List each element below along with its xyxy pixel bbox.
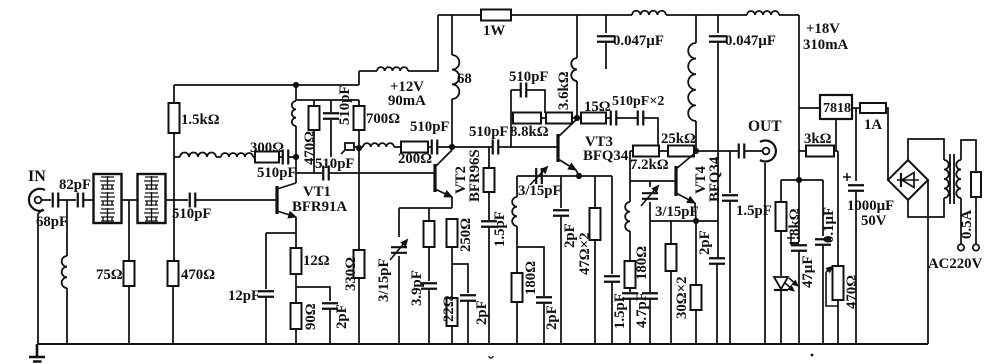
wire 75ohm to ground — [128, 286, 130, 344]
0.047µF value label (second) — [725, 33, 776, 49]
wire 470 bias to base line — [313, 130, 315, 173]
transistor VT1 BFR91A — [277, 183, 296, 218]
wire fuse to bridge — [886, 108, 888, 180]
capacitor 1.5pF (VT3 base shunt) — [481, 221, 497, 227]
resistor 15Ω — [581, 113, 606, 124]
wire 30x2 drop — [670, 221, 672, 244]
page speck 2 — [811, 354, 814, 357]
wire 0.1uF to ground — [822, 245, 824, 344]
svg-text:68: 68 — [457, 71, 472, 87]
wire node to cap2 — [452, 146, 492, 148]
svg-text:2pF: 2pF — [334, 304, 350, 329]
wire 0.047-1 down — [605, 43, 607, 69]
wire 330 to ground — [358, 278, 360, 344]
capacitor 1.5pF (output shunt) — [722, 195, 738, 201]
VT4 base line — [630, 180, 676, 182]
3kΩ value label — [804, 131, 832, 147]
equalizer glyph 3 — [144, 208, 159, 222]
68pF value label — [36, 214, 68, 230]
svg-text:90mA: 90mA — [388, 93, 426, 109]
wire trimmer to ground — [398, 256, 400, 344]
equalizer box 均衡器 — [138, 174, 166, 223]
top rail seg3 — [666, 14, 747, 16]
inductor L6 (interstage) — [363, 143, 394, 147]
wire node to 8.8k — [511, 117, 513, 119]
wire base line riser — [510, 90, 512, 147]
emitter line VT4 — [650, 220, 718, 222]
svg-text:2pF: 2pF — [544, 305, 560, 330]
inductor L8 (VT3 emitter) — [512, 197, 517, 226]
wire rail corner down — [798, 15, 800, 180]
1A value label — [864, 117, 882, 133]
310mA label — [803, 37, 849, 53]
capacitor 510pF x2 (first) — [611, 111, 617, 126]
tap pad — [341, 143, 354, 154]
resistor 180Ω — [625, 261, 636, 288]
node interstage junction — [356, 145, 362, 151]
wire 0.1uF drop — [822, 180, 824, 236]
wire 2pF to ground — [467, 301, 469, 344]
resistor 7.2kΩ — [633, 146, 659, 157]
capacitor 2pF (VT2 emitter) — [460, 295, 476, 301]
capacitor 0.047µF (second) — [709, 36, 727, 42]
+12V feed line — [359, 70, 377, 72]
page speck 1 — [489, 356, 493, 358]
capacitor 510pF (parallel 8.8k) — [521, 83, 527, 98]
wire 470 bias drop — [313, 100, 315, 106]
top rail seg4 — [779, 14, 799, 16]
node VT4 collector — [693, 148, 699, 154]
capacitor (trimmer series, VT4) — [642, 293, 658, 299]
wire coil drop left — [516, 176, 518, 197]
2pF rotated label (VT4) — [697, 230, 713, 255]
capacitor 510pF (series with 300Ω) — [283, 150, 289, 165]
wire primary bottom to AC terminal — [960, 198, 962, 244]
svg-text:1000µF: 1000µF — [847, 198, 894, 214]
22Ω rotated label — [441, 295, 457, 322]
inductor 68 (choke) — [452, 55, 459, 99]
wire 2pF branch to ground — [543, 303, 545, 344]
wire 1000uF to ground — [855, 191, 857, 344]
top supply rail — [438, 14, 481, 16]
svg-text:510pF: 510pF — [172, 206, 211, 222]
12Ω value label — [303, 253, 330, 269]
wire base col down to coil — [629, 181, 631, 202]
wire 30x2 second to ground — [695, 310, 697, 344]
wire rail to 0.047 cap1 — [605, 15, 607, 33]
wire 2pF col to ground (VT4) — [716, 264, 718, 344]
capacitor 2pF (VT3 emitter branch) — [536, 297, 552, 303]
wire collector to C 173 — [296, 172, 322, 174]
svg-text:3/15pF: 3/15pF — [518, 183, 562, 199]
potentiometer 470Ω — [833, 266, 844, 300]
bias rail y=85 — [174, 84, 359, 86]
wire L8 down to junction — [516, 226, 518, 273]
trimmer capacitor 3/15pF (VT2) — [390, 240, 408, 261]
wire riser to 7.2k line — [657, 146, 659, 151]
wire tap to 75ohm — [128, 200, 130, 261]
25kΩ value label — [661, 131, 696, 147]
resistor 75Ω — [124, 261, 135, 286]
input connector J1 — [29, 189, 45, 211]
inductor L1 (input shunt) — [62, 256, 67, 288]
wire L3 to 300 — [253, 156, 255, 158]
svg-text:2pF: 2pF — [474, 300, 490, 325]
attenuator glyph 1 — [100, 176, 115, 190]
90Ω rotated label — [303, 303, 319, 330]
svg-text:12pF: 12pF — [228, 288, 260, 304]
wire 3k to pot column — [834, 150, 838, 152]
wire 90 to ground — [295, 329, 297, 344]
svg-text:15Ω: 15Ω — [584, 99, 611, 115]
wire C to VT2 base — [330, 172, 435, 174]
wire fuse to AC terminal — [975, 197, 977, 244]
transistor VT3 BFQ34 — [558, 120, 576, 170]
svg-text:700Ω: 700Ω — [366, 111, 400, 127]
300Ω value label — [250, 140, 284, 156]
wire 12pF drop — [265, 233, 267, 289]
wire trimmer col down — [649, 202, 651, 292]
svg-text:2pF: 2pF — [562, 223, 578, 248]
wire Rbox drop — [428, 208, 430, 221]
2pF rotated label (VT3) — [562, 223, 578, 248]
AC terminal 2 — [973, 244, 979, 250]
2pF rotated label (VT1) — [334, 304, 350, 329]
capacitor 47µF plus sign — [787, 234, 795, 242]
emitter tie line VT1 — [266, 232, 296, 234]
svg-text:470Ω: 470Ω — [181, 267, 215, 283]
output connector J2 — [760, 141, 776, 162]
resistor 700Ω — [354, 106, 365, 130]
wire L4 top to rail — [295, 85, 297, 101]
resistor (VT3 base shunt branch) — [484, 168, 495, 192]
wire equalizer to C510 — [166, 199, 189, 201]
wire 1.5pF shunt drop — [488, 147, 490, 168]
wire 47uF col — [798, 180, 800, 242]
capacitor 82pF — [78, 193, 84, 208]
wire attenuator to equalizer — [122, 199, 138, 201]
VT4 rotated label — [693, 165, 709, 194]
OUT label — [748, 118, 782, 135]
wire 3.6k to node — [572, 117, 577, 119]
LED VD1 — [774, 277, 798, 291]
svg-text:BFR96S: BFR96S — [467, 149, 483, 202]
wire 12-90 node — [295, 274, 297, 303]
transformer primary — [956, 160, 961, 198]
wire 7818 gnd pin — [835, 119, 837, 151]
1.5pF rotated label (VT3 emitter) — [612, 293, 628, 329]
wire 700 down to interstage line — [358, 130, 360, 148]
3/15pF rotated label (VT2) — [376, 258, 392, 302]
fuse 0.5A — [971, 172, 981, 197]
capacitor 510pF (bias network) — [323, 113, 339, 119]
svg-text:+18V: +18V — [806, 21, 840, 37]
svg-text:3/15pF: 3/15pF — [655, 204, 699, 220]
wire Rbox to 3.9pF — [428, 247, 430, 281]
resistor 30Ω×2 (first) — [666, 244, 677, 271]
svg-text:330Ω: 330Ω — [343, 257, 359, 291]
200Ω value label — [398, 151, 432, 167]
svg-text:0.1µF: 0.1µF — [821, 207, 837, 243]
wire long choke riser — [695, 15, 697, 43]
svg-text:68pF: 68pF — [36, 214, 68, 230]
attenuator glyph 3 — [100, 208, 115, 222]
wire 47uF to ground — [798, 251, 800, 344]
wire rail drop to VT3 coil — [576, 15, 578, 58]
wire bridge AC top — [908, 139, 944, 160]
svg-text:50V: 50V — [861, 213, 887, 229]
trimmer capacitor 3/15pF (VT3) — [530, 167, 548, 186]
svg-text:3kΩ: 3kΩ — [804, 131, 832, 147]
attenuator glyph 2 — [100, 192, 115, 206]
wire cap to node — [438, 146, 452, 148]
inductor L5 (+12V feed) — [377, 67, 408, 71]
capacitor 47µF — [791, 245, 807, 251]
+18V label — [806, 21, 840, 37]
svg-text:1.8kΩ: 1.8kΩ — [787, 208, 803, 247]
svg-text:3/15pF: 3/15pF — [376, 258, 392, 302]
wire 200 to cap — [428, 146, 431, 148]
bridge rectifier — [888, 160, 928, 200]
capacitor 1.5pF (VT3 emitter) — [604, 276, 620, 282]
svg-text:IN: IN — [28, 168, 46, 185]
wire 18V to 7818 — [799, 107, 820, 109]
wire VT1 collector up — [295, 126, 297, 183]
svg-text:510pF: 510pF — [410, 119, 449, 135]
capacitor (output coupling) — [739, 144, 745, 159]
82pF value label — [59, 177, 91, 193]
510pF value label (under 300Ω) — [257, 165, 296, 181]
resistor 330Ω — [354, 250, 365, 278]
700Ω value label — [366, 111, 400, 127]
wire node to shunt coil — [66, 200, 68, 256]
svg-text:BFQ34: BFQ34 — [583, 148, 629, 164]
wire trimmer drop (VT4) — [649, 181, 651, 187]
wire pot to ground — [837, 300, 839, 344]
wire L5 to top rail riser — [408, 15, 438, 71]
wire rail to 68 coil — [451, 15, 453, 55]
emitter line VT2 — [399, 207, 452, 209]
wire 330 col — [358, 249, 360, 251]
wire 510p bias down — [330, 120, 332, 157]
capacitor 2pF (VT3 emitter) — [553, 210, 569, 216]
wire 7.2k-25k — [659, 150, 668, 152]
resistor 3.6kΩ — [546, 113, 572, 124]
3.6kΩ rotated label — [556, 71, 572, 110]
1.5pF value label (output) — [736, 203, 772, 219]
BFQ34 label (VT3) — [583, 148, 629, 164]
node VT2 collector junction — [449, 144, 455, 150]
wire VT1 emitter down — [295, 217, 297, 233]
wire 7.2k drop to base line — [629, 151, 631, 181]
12pF value label — [228, 288, 260, 304]
470Ω rotated label (pot) — [844, 275, 860, 309]
wire 12pF to ground — [265, 297, 267, 344]
svg-text:180Ω: 180Ω — [523, 261, 539, 295]
15Ω value label — [584, 99, 611, 115]
svg-text:200Ω: 200Ω — [398, 151, 432, 167]
wire 3k line — [799, 150, 806, 152]
wire 25k to collector node — [694, 150, 696, 152]
resistor 470Ω (input bias) — [168, 261, 179, 286]
inductor L3 — [221, 153, 253, 157]
resistor 3kΩ — [806, 146, 834, 157]
svg-text:12Ω: 12Ω — [303, 253, 330, 269]
bias network top tie — [296, 99, 359, 101]
180Ω rotated label — [634, 246, 650, 280]
transistor VT4 BFQ34 — [676, 153, 695, 203]
capacitor 12pF — [258, 291, 274, 297]
470Ω rotated label (bias) — [302, 131, 318, 165]
wire cap to VT1 collector column — [289, 156, 296, 158]
svg-text:30Ω×2: 30Ω×2 — [674, 277, 690, 319]
wire cap to OUT connector — [745, 150, 763, 152]
svg-text:7818: 7818 — [823, 101, 851, 116]
resistor 90Ω — [291, 303, 302, 329]
svg-text:310mA: 310mA — [803, 37, 849, 53]
1.5pF rotated label (VT3 base) — [492, 211, 508, 247]
7.2kΩ value label — [630, 157, 669, 173]
capacitor 510pF (VT1-VT2 coupling) — [323, 166, 329, 181]
0.1µF rotated label — [821, 207, 837, 243]
wire 7818 to fuse — [852, 107, 860, 109]
node LED feed junction — [796, 177, 802, 183]
wire LED to ground — [780, 290, 782, 344]
svg-text:250Ω: 250Ω — [458, 218, 474, 252]
wire bridge AC bottom — [908, 198, 944, 217]
wire OUT shield to ground — [764, 163, 766, 344]
top rail seg2 — [511, 14, 632, 16]
svg-text:47µF: 47µF — [800, 256, 816, 288]
+12V label — [390, 79, 424, 95]
wire 30x2 to ground — [670, 271, 672, 344]
capacitor 0.1µF — [815, 239, 831, 245]
svg-text:1.5pF: 1.5pF — [736, 203, 772, 219]
1W value label — [483, 23, 505, 39]
wire input to C1 — [42, 199, 52, 201]
wire 700 drop — [358, 100, 360, 106]
capacitor 2pF (VT1 emitter) — [322, 303, 338, 309]
2pF rotated label (VT3 branch) — [544, 305, 560, 330]
VT3 label — [585, 134, 613, 150]
wire node to 2pF branch — [452, 264, 468, 293]
47Ω×2 rotated label — [577, 233, 593, 275]
svg-text:0.047µF: 0.047µF — [725, 33, 776, 49]
node VT4 emitter — [693, 218, 699, 224]
inductor L10 (rail filter 1) — [632, 11, 666, 15]
resistor 12Ω — [291, 248, 302, 274]
wire VT2 base col crossing — [433, 172, 435, 174]
wire coil line start — [174, 156, 180, 158]
wire 700 column continues down — [358, 148, 360, 250]
330Ω rotated label — [343, 257, 359, 291]
wire VT3 emitter down — [576, 170, 579, 176]
wire primary top to fuse — [961, 140, 976, 172]
90mA label — [388, 93, 426, 109]
resistor 1W — [481, 10, 511, 21]
75Ω value label — [96, 267, 123, 283]
transformer core — [950, 154, 954, 204]
47µF rotated label — [800, 256, 816, 288]
potentiometer wiper arrow — [826, 267, 838, 307]
3.9pF rotated label — [409, 270, 425, 306]
8.8kΩ value label — [510, 124, 549, 140]
wire 12ohm drop — [295, 233, 297, 248]
wire bias rail left drop — [173, 85, 175, 103]
510pF value label (VT2 out) — [469, 124, 508, 140]
inductor L12 (VT4 collector choke) — [688, 43, 696, 121]
inductor L11 (rail filter 2) — [747, 11, 779, 15]
wire 15 to caps — [606, 117, 610, 119]
emitter line VT3 — [517, 175, 612, 177]
equalizer glyph 1 — [144, 176, 159, 190]
510pF value label (over 200Ω) — [410, 119, 449, 135]
wire cap2 to VT3 base — [499, 146, 557, 148]
svg-text:1.5kΩ: 1.5kΩ — [181, 112, 220, 128]
BFR91A label — [292, 199, 347, 215]
svg-text:510pF: 510pF — [257, 165, 296, 181]
capacitor 510pF (VT1 base coupling) — [190, 193, 196, 208]
svg-text:8.8kΩ: 8.8kΩ — [510, 124, 549, 140]
wire emitter corner down to 1.5pF — [611, 176, 613, 274]
wire L1 to ground — [66, 288, 68, 344]
wire VT3 collector stub — [576, 118, 577, 120]
node VT3 emitter — [576, 173, 582, 179]
svg-text:300Ω: 300Ω — [250, 140, 284, 156]
wire 2pF drop (VT3) — [560, 176, 562, 208]
LED feed line — [781, 179, 823, 181]
30Ω×2 rotated label — [674, 277, 690, 319]
1000µF value label — [847, 198, 894, 214]
svg-text:470Ω: 470Ω — [844, 275, 860, 309]
capacitor 510pF (VT2-VT3 coupling) — [493, 140, 499, 155]
svg-text:4.7pF: 4.7pF — [634, 292, 650, 328]
wire 1.5pF col to ground — [611, 282, 613, 344]
wire 1.8k drop — [780, 180, 782, 202]
wire 3.9pF to ground — [428, 289, 430, 344]
node VT1 collector-feedback — [293, 154, 299, 160]
svg-text:1W: 1W — [483, 23, 505, 39]
VT2 rotated label — [453, 166, 469, 194]
trimmer capacitor 3/15pF (VT4) — [641, 186, 659, 207]
wire 510p bias drop — [330, 100, 332, 112]
transformer secondary — [944, 160, 949, 198]
wire 47x2 to ground — [594, 240, 596, 344]
1.8kΩ rotated label — [787, 208, 803, 247]
wire between x2 caps — [617, 117, 637, 119]
wire 0.047-2 down — [717, 43, 718, 258]
inductor L9 (VT4 base column) — [625, 202, 630, 231]
wire 2pF to ground (VT3) — [560, 216, 562, 344]
wire C1 to node — [59, 199, 76, 201]
wire C to VT1 base — [196, 199, 277, 201]
node bias rail junction — [293, 82, 299, 88]
transistor VT2 BFR96S — [435, 150, 452, 197]
inductor L2 — [180, 153, 216, 158]
510pF value label (8.8k) — [509, 69, 548, 85]
wire C2 to attenuator — [84, 199, 93, 201]
svg-text:180Ω: 180Ω — [634, 246, 650, 280]
svg-text:510pF: 510pF — [315, 156, 354, 172]
180Ω rotated label (VT3 emitter) — [523, 261, 539, 295]
wire cap to stub — [527, 90, 545, 113]
wire 250 to node — [451, 247, 453, 298]
0.5A rotated label — [959, 210, 975, 239]
wire 180 to 4.7pF — [629, 288, 631, 292]
capacitor 510pF x2 (second) — [638, 111, 644, 126]
wire 1000uF drop — [855, 108, 857, 181]
wire trimmer col ground — [649, 299, 651, 344]
